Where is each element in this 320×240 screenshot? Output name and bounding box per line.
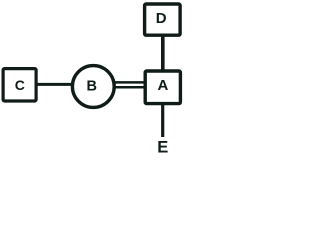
- svg-text:D: D: [156, 10, 167, 27]
- svg-text:C: C: [15, 77, 25, 93]
- wire B=A double lower: [115, 86, 145, 89]
- node B circle: [72, 66, 114, 108]
- wire A-E: [161, 104, 164, 137]
- wire C-B: [37, 83, 73, 86]
- wire B=A double upper: [115, 81, 145, 84]
- node A box: [145, 71, 180, 104]
- node C box: [3, 69, 36, 101]
- svg-text:A: A: [157, 77, 168, 94]
- svg-text:B: B: [86, 79, 96, 95]
- node D box: [145, 4, 181, 35]
- svg-text:E: E: [157, 138, 168, 155]
- wire D-A: [161, 36, 165, 71]
